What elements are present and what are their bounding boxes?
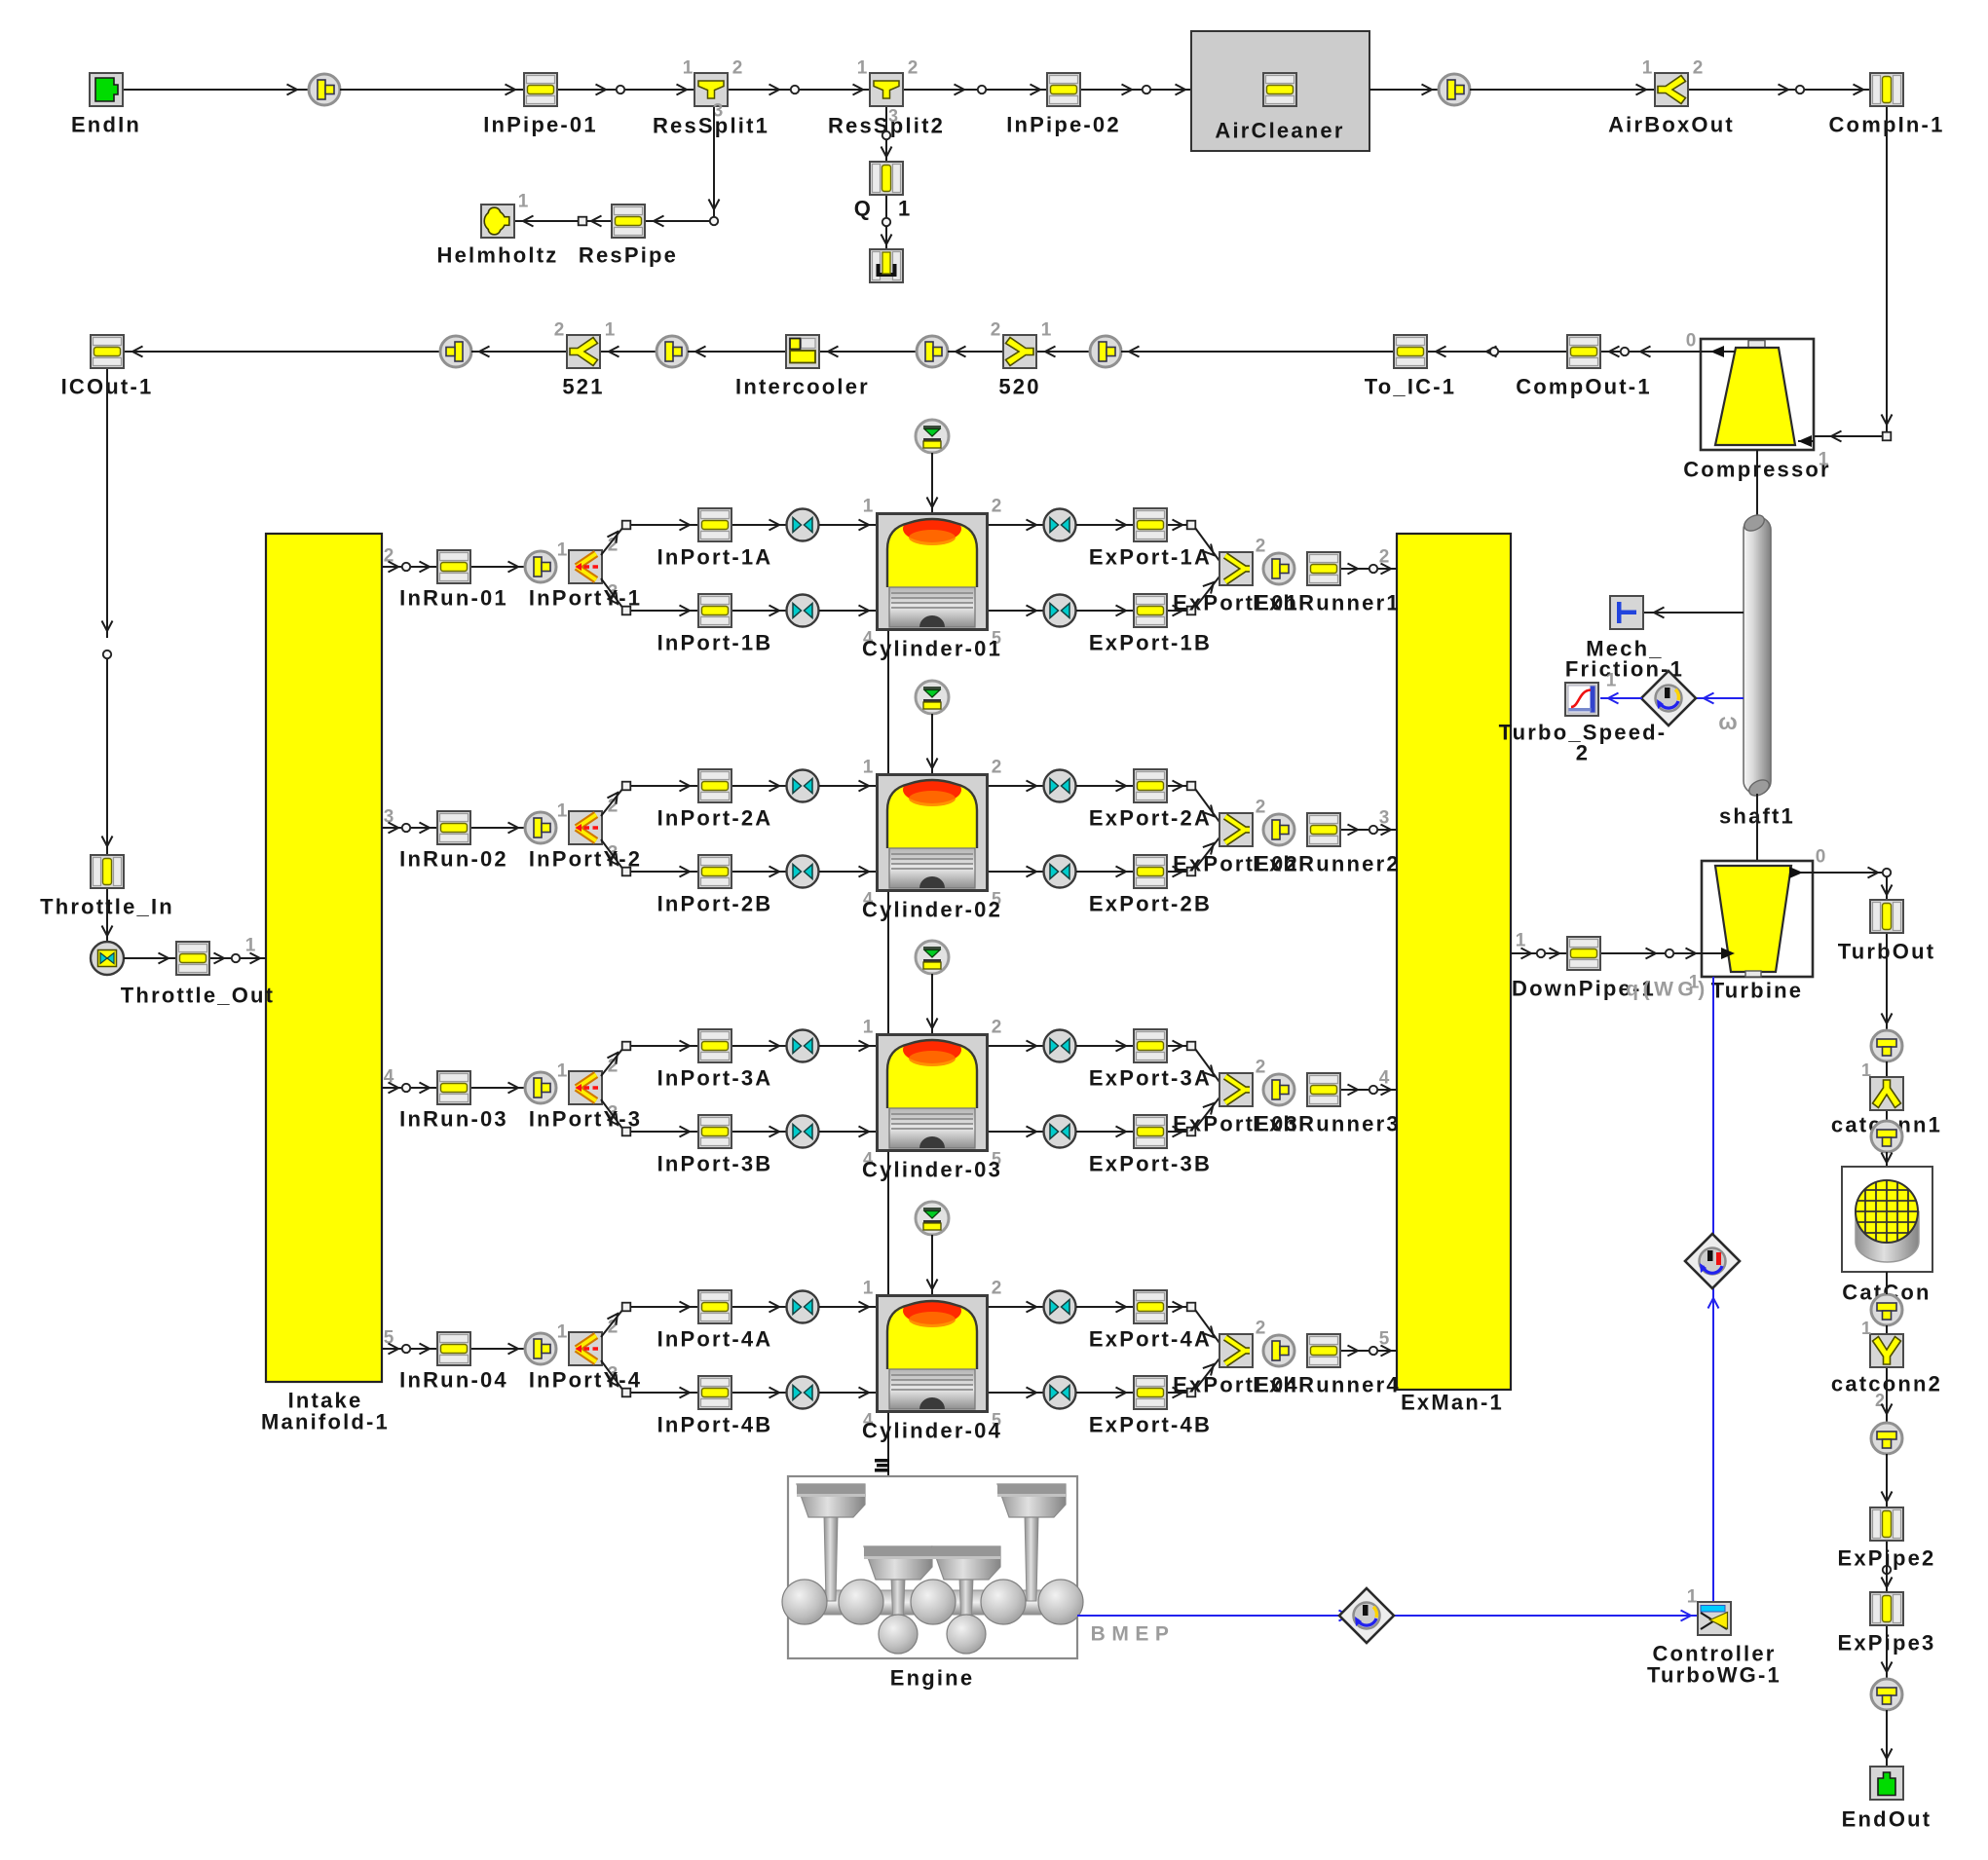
svg-text:520: 520 [998,375,1040,399]
pipe ExPort-3A [1089,1029,1212,1091]
bellmouth conn-r6 [1871,1679,1902,1710]
bellmouth orifice conn-4 [656,336,688,367]
node junction j6 [1883,432,1892,441]
pipe CompIn-1 [1828,73,1944,137]
svg-text:AirCleaner: AirCleaner [1215,119,1344,143]
pipe InPipe-02 [1006,73,1121,137]
wire cylinder to valve 2B ex [989,867,1043,877]
svg-text:EndOut: EndOut [1842,1807,1932,1832]
node junction j15 [1666,949,1673,957]
controller Controller TurboWG-1 [1647,1602,1782,1688]
wire to InPort-1B [631,606,697,616]
wire valve to ExPort-2A [1076,781,1133,792]
node junction j12 [1621,348,1629,355]
pipe InPort-1A [657,508,773,570]
wire compressor inlet inside [1798,435,1814,447]
wire ResSplit2 to InPipe-02 [904,85,1046,95]
svg-text:2: 2 [554,320,565,341]
injector row1 [916,420,949,453]
svg-text:2: 2 [1693,58,1704,79]
node square exB1 [1187,607,1196,615]
node square exA4 [1187,1303,1196,1312]
wire AirCleaner to bellmouth-2 [1369,85,1440,95]
wire cylinder to valve 2A ex [989,781,1043,792]
svg-text:InPort-4A: InPort-4A [657,1327,773,1352]
wire node to merge A2 [1195,789,1219,822]
svg-text:Cylinder-04: Cylinder-04 [862,1419,1002,1443]
wire InPort-4A to valve [732,1302,786,1313]
intake valve 4A [787,1291,819,1323]
svg-text:1: 1 [1606,671,1617,691]
compressor Compressor [1683,331,1831,482]
wire sensor to Turbo_Speed-2 [1600,671,1642,704]
node square exB3 [1187,1128,1196,1136]
end environment EndOut [1842,1767,1932,1832]
wire InRun-01 to bellmouth [471,562,525,573]
wire To_IC-1 to bellmouth-6 [1121,347,1393,357]
svg-text:ExPort-3B: ExPort-3B [1089,1152,1212,1176]
wire cylinder to valve 4A ex [989,1302,1043,1313]
wire Q1 to node [885,196,887,218]
svg-text:InRun-02: InRun-02 [399,847,508,872]
node square exA3 [1187,1042,1196,1051]
node junction m3 [402,1084,410,1092]
svg-text:5: 5 [1379,1329,1390,1350]
resonator Helmholtz [437,192,559,268]
svg-text:ω: ω [1718,709,1737,734]
flowsplit 520 [991,320,1052,399]
wire node to end cap [881,226,892,248]
flowsplit AirBoxOut [1608,58,1735,137]
wire InPort-3A to valve [732,1041,786,1052]
pipe InRun-04 [399,1332,508,1393]
node junction j11 [1490,348,1498,355]
pipe CompOut-1 [1516,335,1652,399]
svg-text:EndIn: EndIn [71,113,141,137]
wire ExhRunner3 to ExMan [1341,1068,1397,1096]
svg-text:1: 1 [245,936,256,956]
svg-text:1: 1 [1861,1060,1871,1080]
pipe ExPort-2A [1089,769,1212,831]
injector row2 [916,681,949,714]
wire Intercooler to bellmouth-4 [688,347,785,357]
svg-text:Cylinder-02: Cylinder-02 [862,898,1002,922]
wire cylinder to valve 1B ex [989,606,1043,616]
end flow cap below Q1 [870,249,903,282]
wire split to B-node row4 [601,1360,623,1391]
wire turbine outlet [1789,867,1887,878]
node junction j1 [617,86,624,93]
wire ResPipe to Helmholtz [515,216,611,227]
pipe InPort-4A [657,1290,773,1352]
wire node to merge A4 [1195,1310,1219,1343]
svg-text:1: 1 [898,197,912,221]
svg-text:ExPort-3A: ExPort-3A [1089,1066,1212,1091]
svg-text:InPort-3B: InPort-3B [657,1152,773,1176]
cylinder Cylinder-04 [862,1279,1002,1443]
wire valve to cylinder 4A [819,1302,876,1313]
node square exB4 [1187,1389,1196,1397]
wire node to Q1 [881,139,892,161]
node junction j3 [978,86,986,93]
svg-text:1: 1 [1689,973,1700,993]
node square B4 [622,1389,631,1397]
wire manifold to InRun-01 [382,546,436,573]
node junction r5 [1882,1542,1893,1591]
label q(WG) [1626,973,1708,1001]
exhaust valve 3B [1044,1116,1076,1148]
svg-text:InPort-3A: InPort-3A [657,1066,773,1091]
wire InRun-02 to bellmouth [471,823,525,834]
wire corner to ResPipe [646,216,709,227]
flowsplit ExPortE04 [1173,1319,1299,1397]
wire InPipe-01 to ResSplit1 [558,85,694,95]
wire ExPort-4B to node [1168,1388,1187,1398]
wire injector to cylinder 1 [927,453,938,512]
intake valve 3A [787,1030,819,1062]
pipe InPipe-01 [483,73,598,137]
wire AirBoxOut to CompIn-1 [1689,85,1869,95]
flowsplit catconn2 [1831,1319,1942,1410]
svg-text:2: 2 [1256,537,1266,557]
wire manifold to InRun-04 [382,1328,436,1355]
node junction m1 [402,563,410,571]
wire split to A-node row1 [601,527,623,555]
wire conn to catconn2 [1886,1325,1888,1335]
node junction j17 [232,954,240,962]
svg-text:1: 1 [557,1322,568,1343]
node junction j16 [103,651,111,658]
svg-text:Throttle_Out: Throttle_Out [121,984,275,1008]
exhaust valve 4B [1044,1377,1076,1409]
bellmouth orifice conn-5 [917,336,948,367]
wire valve to ExPort-1A [1076,520,1133,531]
turbo shaft shaft1 [1719,512,1795,829]
svg-text:InRun-01: InRun-01 [399,586,508,611]
flowsplit ResSplit2 [828,58,945,138]
svg-text:Turbine: Turbine [1711,979,1803,1003]
wire to InPort-3B [631,1127,697,1137]
node junction j9 [882,131,890,139]
wire Throttle_In to throttle [102,889,113,942]
intake valve 3B [787,1116,819,1148]
intake valve 1A [787,509,819,541]
bellmouth exhaust row3 [1263,1074,1294,1105]
bellmouth conn-r4 [1871,1423,1902,1454]
wire cylinder to valve 1A ex [989,520,1043,531]
wire catconn2 down [1882,1368,1893,1423]
wire valve to cylinder 2A [819,781,876,792]
wire node to merge A3 [1195,1049,1219,1082]
wire DownPipe-1 to turbine [1601,948,1735,959]
bellmouth exhaust row4 [1263,1335,1294,1366]
node junction j2 [791,86,799,93]
wire split to B-node row1 [601,578,623,609]
wire 521 to bellmouth-3 [471,347,566,357]
actuator diamond wastegate [1685,1234,1740,1288]
svg-text:2: 2 [1256,1319,1266,1339]
bellmouth intake row4 [525,1322,568,1365]
wire InRun-03 to bellmouth [471,1083,525,1094]
node junction j8 [579,217,587,226]
flowsplit catconn1 [1831,1060,1942,1137]
wire manifold to InRun-03 [382,1067,436,1094]
svg-text:InPort-1B: InPort-1B [657,631,773,655]
pipe InPort-2B [657,855,773,916]
wire bellmouth-4 to 521 [601,347,656,357]
wire manifold to InRun-02 [382,807,436,834]
node square A1 [622,521,631,530]
turbine Turbine [1702,847,1825,1003]
wire shaft1 to speed sensor [1696,693,1744,735]
wire ExMan-1 to DownPipe-1 [1511,931,1566,959]
svg-text:Cylinder-01: Cylinder-01 [862,637,1002,661]
throttle valve [91,942,124,975]
pipe ExPort-4B [1089,1376,1212,1437]
wire cylinder to valve 3A ex [989,1041,1043,1052]
svg-text:InPipe-02: InPipe-02 [1006,113,1121,137]
flowsplit ExPortE01 [1173,537,1299,615]
node square exB2 [1187,868,1196,876]
svg-text:InPort-4B: InPort-4B [657,1413,773,1437]
node square A4 [622,1303,631,1312]
wire valve to cylinder 2B [819,867,876,877]
svg-text:2: 2 [908,58,919,79]
wire InPort-1A to valve [732,520,786,531]
pipe ExPort-2B [1089,855,1212,916]
wire ExhRunner4 to ExMan [1341,1329,1397,1357]
pipe ExPipe3 [1837,1592,1935,1655]
node junction ex1 [1369,565,1377,573]
wire TurbOut down [1882,934,1893,1030]
wire valve to ExPort-3B [1076,1127,1133,1137]
svg-text:1: 1 [1861,1319,1871,1338]
flowsplit InPortY-4 [529,1318,642,1393]
svg-text:0: 0 [1686,331,1697,352]
pipe Throttle_Out [121,942,275,1008]
svg-text:InPipe-01: InPipe-01 [483,113,598,137]
svg-text:1: 1 [863,1018,874,1038]
wire InPort-3B to valve [732,1127,786,1137]
svg-text:InRun-03: InRun-03 [399,1107,508,1132]
wire conn to ExPipe2 [1882,1454,1893,1508]
pipe ExhRunner2 [1253,813,1401,876]
cylinder Cylinder-03 [862,1018,1002,1182]
svg-text:Manifold-1: Manifold-1 [261,1410,390,1434]
node square B3 [622,1128,631,1136]
wire conn to CatCon [1882,1152,1893,1167]
sensor diamond speed [1641,671,1696,725]
node junction j14 [1537,949,1545,957]
wire node to merge A1 [1195,528,1219,561]
exhaust valve 2B [1044,856,1076,888]
wire catconn1 to conn [1886,1111,1888,1122]
svg-text:2: 2 [1379,547,1390,568]
svg-text:2: 2 [991,320,1001,341]
wire to InPort-4A [631,1302,697,1313]
pipe ExhRunner3 [1253,1073,1401,1136]
wire Throttle_Out to manifold [210,936,266,964]
wire node down to TurbOut [1882,876,1893,899]
wire to InPort-3A [631,1041,697,1052]
pipe InPort-4B [657,1376,773,1437]
node square exA1 [1187,521,1196,530]
bellmouth intake row2 [525,801,568,844]
svg-text:ExhRunner4: ExhRunner4 [1253,1373,1401,1397]
node square A3 [622,1042,631,1051]
exhaust valve 1A [1044,509,1076,541]
svg-text:2: 2 [732,58,743,79]
pipe InRun-01 [399,550,508,611]
flowsplit ExPortE03 [1173,1058,1299,1136]
node square B2 [622,868,631,876]
svg-text:1: 1 [857,58,868,79]
pipe ExhRunner4 [1253,1334,1401,1397]
svg-text:1: 1 [557,1061,568,1082]
wire node to merge B2 [1195,837,1219,869]
wire shaft1 to turbine [1756,794,1758,866]
wire split to A-node row2 [601,788,623,816]
node junction j10 [882,218,890,226]
svg-text:1: 1 [1041,320,1052,341]
node junction m4 [402,1345,410,1353]
wire cylinder to valve 3B ex [989,1127,1043,1137]
wire ResSplit1 to ResSplit2 [729,85,869,95]
pipe Throttle_In [40,855,174,919]
svg-text:Helmholtz: Helmholtz [437,243,559,268]
wire ExPort-4A to node [1168,1302,1187,1313]
wire to InPort-2B [631,867,697,877]
bellmouth exhaust row1 [1263,553,1294,584]
pipe ExhRunner1 [1253,552,1401,615]
pipe ExPort-3B [1089,1115,1212,1176]
flowsplit InPortY-2 [529,797,642,872]
catalyst CatCon [1842,1167,1932,1305]
svg-text:3: 3 [1379,808,1390,829]
pipe To_IC-1 [1365,335,1456,399]
pipe DownPipe-1 [1512,937,1656,1001]
end environment EndIn [71,73,141,137]
wire ExhRunner2 to ExMan [1341,808,1397,836]
node junction ex3 [1369,1086,1377,1094]
svg-text:1: 1 [557,801,568,822]
svg-text:ExPort-1A: ExPort-1A [1089,545,1212,570]
svg-text:1: 1 [1516,931,1526,951]
svg-text:BMEP: BMEP [1091,1623,1176,1646]
wire bellmouth-6 to 520 [1037,347,1090,357]
wire ResSplit2 down [886,106,898,130]
svg-text:1: 1 [1687,1587,1698,1608]
wire valve to ExPort-2B [1076,867,1133,877]
pipe TurbOut [1838,900,1936,964]
pipe ICOut-1 [61,335,154,399]
wire injector to cylinder 3 [927,974,938,1033]
wire conn to EndOut [1882,1710,1893,1766]
svg-text:ExPort-2A: ExPort-2A [1089,806,1212,831]
wire 520 to bellmouth-5 [948,347,1002,357]
heat exchanger Intercooler [735,335,870,399]
wire valve to cylinder 4B [819,1388,876,1398]
flowsplit InPortY-3 [529,1057,642,1132]
node junction ex4 [1369,1347,1377,1355]
injector row4 [916,1202,949,1235]
node square A2 [622,782,631,791]
svg-text:AirBoxOut: AirBoxOut [1608,113,1735,137]
flowsplit ExPortE02 [1173,798,1299,876]
node corner j7 [710,217,718,225]
pipe InPort-1B [657,594,773,655]
wire InPort-4B to valve [732,1388,786,1398]
exhaust manifold ExMan-1 [1397,534,1511,1415]
wire split to B-node row2 [601,839,623,870]
exhaust valve 3A [1044,1030,1076,1062]
svg-text:2: 2 [992,497,1002,517]
cylinder Cylinder-01 [862,497,1002,661]
svg-text:1: 1 [557,540,568,561]
svg-text:ResSplit1: ResSplit1 [653,114,769,138]
pipe ExPort-1B [1089,594,1212,655]
svg-text:0: 0 [1816,847,1826,868]
svg-text:521: 521 [562,375,604,399]
wire node down to Throttle_In [102,659,113,854]
injector row3 [916,941,949,974]
wire valve to cylinder 3B [819,1127,876,1137]
svg-text:2: 2 [1576,741,1590,765]
bellmouth conn-r3 [1871,1272,1902,1325]
wire ExPort-2A to node [1168,781,1187,792]
svg-text:2: 2 [1256,1058,1266,1078]
exhaust valve 4A [1044,1291,1076,1323]
wire ResSplit1 down to corner [709,107,720,216]
svg-text:1: 1 [605,320,616,341]
svg-text:ExhRunner2: ExhRunner2 [1253,852,1401,876]
intake valve 2B [787,856,819,888]
flowsplit ResSplit1 [653,58,769,138]
bellmouth exhaust row2 [1263,814,1294,845]
wire InPort-2A to valve [732,781,786,792]
pipe Q1 [854,162,913,221]
svg-text:InRun-04: InRun-04 [399,1368,508,1393]
svg-text:To_IC-1: To_IC-1 [1365,375,1456,399]
wire valve to ExPort-4A [1076,1302,1133,1313]
intake valve 4B [787,1377,819,1409]
svg-text:1: 1 [863,758,874,778]
air cleaner AirCleaner [1191,31,1369,151]
svg-text:ExPort-2B: ExPort-2B [1089,892,1212,916]
wire bellmouth-3 to ICOut-1 [125,347,440,357]
wire InPipe-02 to AirCleaner [1081,85,1191,95]
wire valve to cylinder 1B [819,606,876,616]
wire CompOut-1 to To_IC-1 [1428,347,1566,357]
intake valve 2A [787,770,819,802]
pipe InPort-2A [657,769,773,831]
wire split to B-node row3 [601,1099,623,1130]
svg-text:ExMan-1: ExMan-1 [1401,1391,1504,1415]
exhaust valve 2A [1044,770,1076,802]
wire engine BMEP blue [1077,1587,1698,1646]
svg-text:InPort-1A: InPort-1A [657,545,773,570]
wire ExPort-1A to node [1168,520,1187,531]
wire ExhRunner1 to ExMan [1341,547,1397,575]
wire node to merge B1 [1195,577,1219,608]
wire to InPort-4B [631,1388,697,1398]
svg-text:1: 1 [1642,58,1653,79]
svg-text:2: 2 [992,758,1002,778]
svg-text:ExhRunner1: ExhRunner1 [1253,591,1401,615]
svg-text:4: 4 [1379,1068,1390,1089]
monitor Turbo_Speed-2 [1499,683,1668,765]
bellmouth orifice conn-1 [309,74,340,105]
